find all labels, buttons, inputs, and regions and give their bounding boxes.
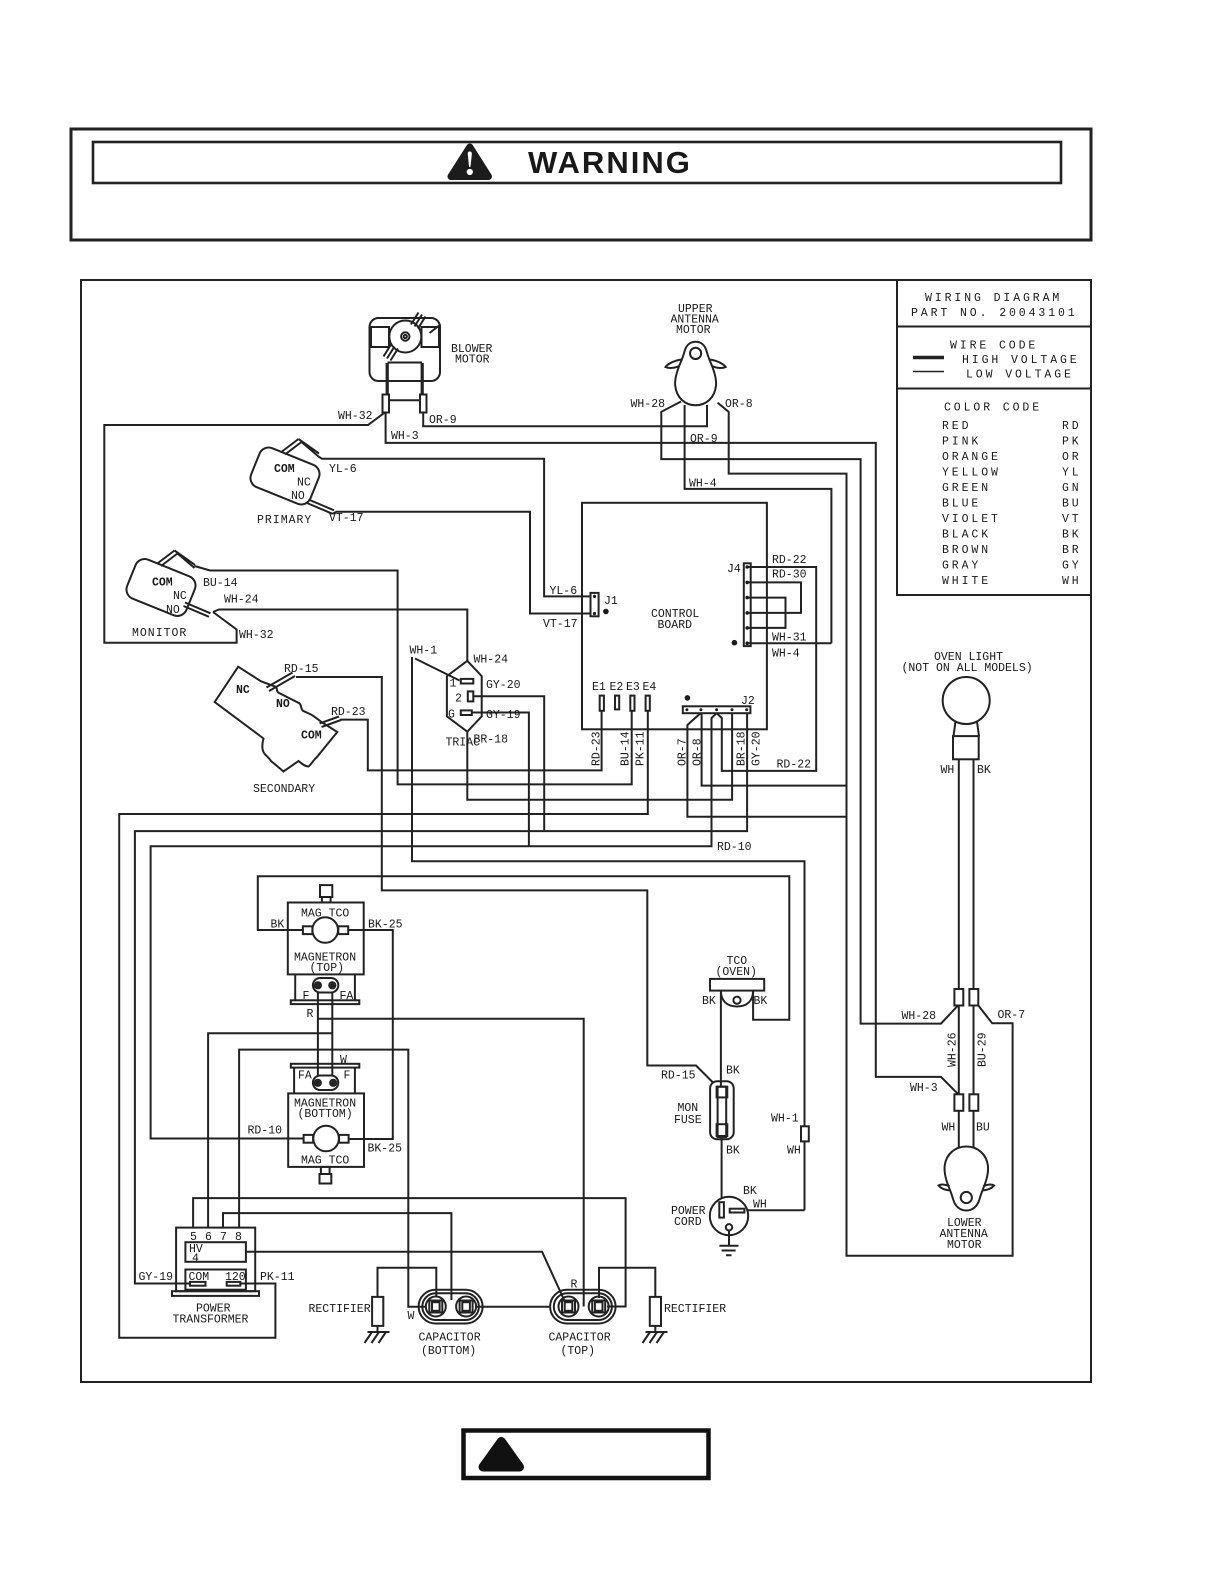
svg-text:GY-20: GY-20: [751, 731, 764, 766]
svg-text:R: R: [571, 1279, 578, 1292]
svg-text:BK: BK: [977, 764, 991, 777]
svg-text:2: 2: [455, 693, 462, 706]
svg-text:WH: WH: [753, 1199, 767, 1212]
svg-text:CORD: CORD: [674, 1216, 702, 1229]
svg-text:NO: NO: [166, 604, 180, 617]
svg-text:LOW VOLTAGE: LOW VOLTAGE: [966, 369, 1074, 382]
svg-text:WH-32: WH-32: [338, 410, 373, 423]
svg-text:120: 120: [225, 1271, 246, 1284]
svg-text:BROWN: BROWN: [942, 544, 991, 557]
svg-text:COM: COM: [189, 1271, 210, 1284]
svg-text:FA: FA: [340, 990, 354, 1003]
svg-text:WH-1: WH-1: [410, 645, 438, 658]
svg-text:(BOTTOM): (BOTTOM): [298, 1108, 353, 1121]
svg-text:OR-7: OR-7: [998, 1009, 1026, 1022]
svg-text:FA: FA: [298, 1070, 312, 1083]
svg-text:RD-10: RD-10: [717, 841, 752, 854]
svg-text:J2: J2: [741, 695, 755, 708]
svg-text:COM: COM: [301, 730, 322, 743]
svg-text:GY-19: GY-19: [486, 709, 521, 722]
svg-text:BR-18: BR-18: [736, 731, 749, 766]
svg-text:BU-14: BU-14: [203, 577, 238, 590]
svg-text:PK-11: PK-11: [260, 1271, 295, 1284]
svg-text:MAG TCO: MAG TCO: [301, 1155, 349, 1168]
svg-text:RD: RD: [1062, 420, 1082, 433]
svg-text:WH-4: WH-4: [689, 478, 717, 491]
svg-text:BK: BK: [702, 995, 716, 1008]
svg-text:RD-22: RD-22: [772, 554, 807, 567]
svg-text:SECONDARY: SECONDARY: [253, 783, 315, 796]
svg-text:GY: GY: [1062, 560, 1082, 573]
svg-text:RD-15: RD-15: [661, 1070, 696, 1083]
svg-text:MAG TCO: MAG TCO: [301, 908, 349, 921]
svg-text:GRAY: GRAY: [942, 560, 981, 573]
svg-text:4: 4: [192, 1253, 199, 1266]
svg-text:6: 6: [205, 1231, 212, 1244]
svg-text:WH-3: WH-3: [391, 430, 419, 443]
svg-text:PINK: PINK: [942, 436, 981, 449]
svg-text:COM: COM: [274, 463, 295, 476]
svg-text:RD-23: RD-23: [331, 706, 366, 719]
svg-text:COM: COM: [152, 577, 173, 590]
svg-text:TRANSFORMER: TRANSFORMER: [173, 1314, 249, 1327]
svg-text:WH: WH: [942, 1122, 956, 1135]
svg-text:WH-28: WH-28: [902, 1010, 937, 1023]
svg-text:OR-8: OR-8: [725, 398, 753, 411]
svg-text:G: G: [448, 709, 455, 722]
svg-text:F: F: [303, 990, 310, 1003]
svg-text:BLACK: BLACK: [942, 529, 991, 542]
svg-text:WH-28: WH-28: [631, 398, 666, 411]
svg-text:YL-6: YL-6: [329, 463, 357, 476]
svg-text:BU-14: BU-14: [620, 731, 633, 766]
svg-text:WH: WH: [787, 1145, 801, 1158]
svg-text:GY-19: GY-19: [139, 1271, 174, 1284]
svg-text:CAPACITOR: CAPACITOR: [419, 1332, 481, 1345]
svg-text:8: 8: [235, 1231, 242, 1244]
svg-text:MOTOR: MOTOR: [947, 1239, 982, 1252]
svg-text:MONITOR: MONITOR: [132, 627, 187, 640]
svg-text:WH-4: WH-4: [772, 648, 800, 661]
svg-text:RD-15: RD-15: [284, 663, 319, 676]
svg-text:(OVEN): (OVEN): [716, 966, 757, 979]
svg-text:COLOR CODE: COLOR CODE: [944, 402, 1042, 415]
svg-text:VIOLET: VIOLET: [942, 513, 1001, 526]
svg-text:WH-24: WH-24: [474, 654, 509, 667]
svg-text:WARNING: WARNING: [528, 145, 692, 180]
svg-text:OR-9: OR-9: [429, 414, 457, 427]
svg-text:NC: NC: [297, 477, 311, 490]
svg-text:W: W: [408, 1310, 415, 1323]
svg-text:1: 1: [450, 678, 457, 691]
svg-text:MOTOR: MOTOR: [455, 354, 490, 367]
svg-text:WH: WH: [1062, 575, 1082, 588]
svg-text:WH-1: WH-1: [771, 1113, 799, 1126]
svg-text:E1: E1: [592, 681, 606, 694]
svg-text:PK: PK: [1062, 436, 1082, 449]
svg-text:(TOP): (TOP): [310, 962, 345, 975]
svg-text:NC: NC: [236, 684, 250, 697]
svg-text:(TOP): (TOP): [561, 1345, 596, 1358]
svg-text:HIGH VOLTAGE: HIGH VOLTAGE: [962, 354, 1080, 367]
svg-text:7: 7: [220, 1231, 227, 1244]
svg-text:VT-17: VT-17: [543, 618, 578, 631]
svg-text:BR: BR: [1062, 544, 1082, 557]
svg-text:BK: BK: [754, 995, 768, 1008]
svg-text:NO: NO: [291, 490, 305, 503]
svg-text:BK: BK: [726, 1065, 740, 1078]
svg-text:BU: BU: [1062, 498, 1082, 511]
svg-text:RD-23: RD-23: [591, 731, 604, 766]
svg-text:YL-6: YL-6: [550, 585, 578, 598]
svg-text:WH-24: WH-24: [224, 594, 259, 607]
svg-text:BU: BU: [976, 1122, 990, 1135]
svg-text:GY-20: GY-20: [486, 679, 521, 692]
svg-text:RECTIFIER: RECTIFIER: [664, 1303, 726, 1316]
svg-text:BOARD: BOARD: [658, 619, 693, 632]
svg-text:(NOT ON ALL MODELS): (NOT ON ALL MODELS): [902, 662, 1033, 675]
svg-text:PK-11: PK-11: [635, 731, 648, 766]
svg-text:OR-7: OR-7: [677, 738, 690, 766]
svg-text:OR-8: OR-8: [692, 738, 705, 766]
svg-text:WIRE CODE: WIRE CODE: [950, 340, 1038, 353]
svg-text:PRIMARY: PRIMARY: [257, 514, 312, 527]
svg-text:PART NO. 20043101: PART NO. 20043101: [911, 307, 1078, 320]
svg-text:RED: RED: [942, 420, 971, 433]
svg-text:VT: VT: [1062, 513, 1082, 526]
svg-text:BK: BK: [1062, 529, 1082, 542]
svg-text:WH-31: WH-31: [772, 632, 807, 645]
svg-text:RECTIFIER: RECTIFIER: [309, 1303, 371, 1316]
svg-text:RD-22: RD-22: [777, 759, 812, 772]
svg-text:WIRING DIAGRAM: WIRING DIAGRAM: [925, 292, 1062, 305]
svg-text:WH-3: WH-3: [910, 1082, 938, 1095]
svg-text:BK-25: BK-25: [368, 919, 403, 932]
svg-text:J1: J1: [604, 595, 618, 608]
svg-text:E4: E4: [643, 681, 657, 694]
svg-text:BK: BK: [743, 1185, 757, 1198]
svg-text:BK-25: BK-25: [368, 1143, 403, 1156]
svg-text:BR-18: BR-18: [474, 734, 509, 747]
svg-text:RD-30: RD-30: [772, 569, 807, 582]
svg-text:NC: NC: [173, 590, 187, 603]
svg-text:F: F: [344, 1070, 351, 1083]
svg-text:BLUE: BLUE: [942, 498, 981, 511]
svg-text:WHITE: WHITE: [942, 575, 991, 588]
svg-text:E2: E2: [610, 681, 624, 694]
svg-text:E3: E3: [626, 681, 640, 694]
svg-text:FUSE: FUSE: [674, 1114, 702, 1127]
svg-text:WH-32: WH-32: [239, 629, 274, 642]
svg-text:BU-29: BU-29: [977, 1032, 990, 1067]
svg-text:WH: WH: [941, 764, 955, 777]
svg-text:GREEN: GREEN: [942, 482, 991, 495]
svg-text:CAPACITOR: CAPACITOR: [549, 1332, 611, 1345]
svg-text:VT-17: VT-17: [329, 512, 364, 525]
svg-text:GN: GN: [1062, 482, 1082, 495]
svg-text:MOTOR: MOTOR: [676, 324, 711, 337]
svg-text:WH-26: WH-26: [947, 1032, 960, 1067]
svg-text:ORANGE: ORANGE: [942, 451, 1001, 464]
svg-text:NO: NO: [276, 698, 290, 711]
svg-text:J4: J4: [727, 563, 741, 576]
svg-text:OR: OR: [1062, 451, 1082, 464]
svg-text:YL: YL: [1062, 467, 1082, 480]
svg-text:R: R: [307, 1008, 314, 1021]
svg-text:YELLOW: YELLOW: [942, 467, 1001, 480]
svg-text:(BOTTOM): (BOTTOM): [421, 1345, 476, 1358]
svg-text:BK: BK: [271, 919, 285, 932]
svg-text:W: W: [340, 1054, 347, 1067]
svg-text:BK: BK: [726, 1145, 740, 1158]
svg-text:OR-9: OR-9: [690, 433, 718, 446]
svg-text:RD-10: RD-10: [248, 1125, 283, 1138]
